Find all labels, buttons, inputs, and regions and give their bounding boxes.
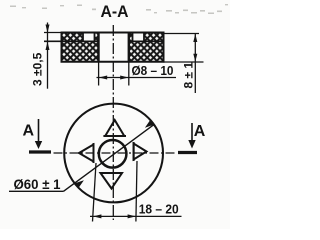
groove line across blocks <box>44 40 164 42</box>
right triangle arrow <box>134 142 147 161</box>
section cutting plane marker right: letter A <box>178 123 206 153</box>
big circle Ø60 <box>64 104 163 203</box>
left section arrow <box>38 119 40 142</box>
cross-section right block hatched body <box>129 33 164 62</box>
right section arrow <box>191 123 193 141</box>
top triangle arrow <box>103 120 126 136</box>
cross-section left block hatched body <box>62 33 99 62</box>
dimension 3±0.5 left <box>46 23 50 89</box>
hole left wall <box>97 33 99 61</box>
left block groove notch (white) <box>83 33 95 41</box>
svg-text:Ø8 – 10: Ø8 – 10 <box>132 64 174 78</box>
dimension 18-20 bottom <box>90 161 182 222</box>
svg-text:A: A <box>23 123 35 140</box>
left thick cutting line <box>29 150 51 153</box>
horizontal centerline <box>54 152 177 154</box>
svg-text:8 ± 1: 8 ± 1 <box>182 62 196 89</box>
hole right wall <box>128 33 130 61</box>
dimension 8±1 right <box>164 34 204 94</box>
small circle (hole) <box>99 140 127 168</box>
scan noise speckles top right <box>10 4 228 14</box>
bottom triangle arrow <box>100 173 123 189</box>
top edge extension to left (for 3±0.5) <box>44 32 62 34</box>
right thick cutting line <box>178 151 197 154</box>
svg-text:A: A <box>194 123 206 140</box>
svg-text:3 ±0,5: 3 ±0,5 <box>31 52 45 86</box>
diameter Ø60 leader diagonal <box>64 121 155 192</box>
section outline rectangle <box>44 33 164 62</box>
dimension Ø8-10 hole <box>97 62 177 86</box>
svg-text:Ø60 ± 1: Ø60 ± 1 <box>14 176 61 192</box>
section cutting plane marker left: letter A <box>23 119 52 152</box>
label Ø60 ± 1 with underline <box>9 176 64 192</box>
svg-text:A-A: A-A <box>101 2 129 21</box>
left triangle arrow <box>79 143 94 163</box>
svg-text:18 – 20: 18 – 20 <box>139 201 179 216</box>
vertical centerline (section + circle) <box>112 25 114 220</box>
right block groove notch (white) <box>133 33 145 41</box>
